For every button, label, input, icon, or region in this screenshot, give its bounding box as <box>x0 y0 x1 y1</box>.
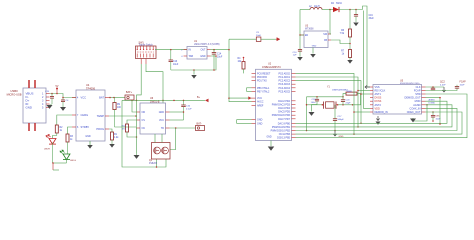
svg-text:560R: 560R <box>347 91 353 93</box>
svg-text:560pF: 560pF <box>338 119 345 121</box>
svg-text:CHRG: CHRG <box>81 113 89 117</box>
svg-text:GND: GND <box>85 135 91 138</box>
svg-text:AGND: AGND <box>413 104 420 107</box>
svg-text:OC: OC <box>142 127 146 130</box>
svg-text:PD0 RX0: PD0 RX0 <box>257 76 268 79</box>
svg-text:VCC: VCC <box>257 97 262 100</box>
svg-text:PWM DAC3 PD3: PWM DAC3 PD3 <box>272 103 291 106</box>
svg-text:DAC4 PD4: DAC4 PD4 <box>278 107 290 110</box>
svg-text:0.1uF: 0.1uF <box>186 109 192 111</box>
svg-text:GND: GND <box>312 45 317 47</box>
svg-text:OD: OD <box>142 111 146 114</box>
svg-text:DCK13 PB5: DCK13 PB5 <box>277 137 291 140</box>
svg-text:PC4 ADC4: PC4 ADC4 <box>278 87 290 90</box>
svg-text:10uF: 10uF <box>217 57 223 59</box>
svg-text:LEDR: LEDR <box>44 149 50 151</box>
svg-text:AVCC: AVCC <box>257 101 264 104</box>
svg-text:BAT: BAT <box>99 96 104 100</box>
svg-text:DVSS: DVSS <box>375 97 382 100</box>
svg-text:C19: C19 <box>369 15 374 17</box>
svg-text:GND: GND <box>266 137 271 139</box>
svg-text:EM4095HMSO16B+: EM4095HMSO16B+ <box>400 83 421 85</box>
svg-text:C14: C14 <box>217 54 222 56</box>
svg-text:10nF: 10nF <box>460 84 466 86</box>
svg-text:VCC: VCC <box>81 96 87 100</box>
svg-text:DAC7 PD7: DAC7 PD7 <box>278 118 290 121</box>
svg-text:CS: CS <box>142 119 146 122</box>
svg-text:DEMOD_OUT: DEMOD_OUT <box>405 97 421 100</box>
svg-text:PC1 ADC1: PC1 ADC1 <box>278 76 290 79</box>
svg-text:1uF: 1uF <box>293 55 297 57</box>
svg-text:ATMEGA328P-PU: ATMEGA328P-PU <box>262 66 281 69</box>
svg-text:5V: 5V <box>56 85 59 88</box>
svg-text:OC11 PB3: OC11 PB3 <box>279 133 291 136</box>
svg-text:PC6 RESET: PC6 RESET <box>257 72 271 75</box>
svg-text:DGND: DGND <box>429 102 436 104</box>
svg-text:GND: GND <box>200 55 206 58</box>
svg-text:4.4nF: 4.4nF <box>440 84 446 86</box>
svg-text:PWM DAC6 PD6: PWM DAC6 PD6 <box>272 114 291 117</box>
svg-text:EN: EN <box>305 35 309 37</box>
svg-text:PB6 XTAL1: PB6 XTAL1 <box>257 87 270 90</box>
svg-text:TP4056: TP4056 <box>86 86 96 90</box>
svg-text:DVSS: DVSS <box>375 100 382 103</box>
svg-text:PROG: PROG <box>96 127 104 131</box>
svg-text:AREF: AREF <box>257 104 264 107</box>
svg-text:PB7 XTAL2: PB7 XTAL2 <box>257 90 270 93</box>
svg-text:10uF: 10uF <box>256 35 262 37</box>
svg-text:10nF: 10nF <box>436 118 442 120</box>
svg-text:GND: GND <box>257 122 263 125</box>
svg-text:DAC 8 PB0: DAC 8 PB0 <box>278 122 291 125</box>
svg-text:PC5 ADC5: PC5 ADC5 <box>278 90 290 93</box>
svg-text:LM1117MPX-3.3 (NOPB): LM1117MPX-3.3 (NOPB) <box>194 44 220 46</box>
svg-text:SHD: SHD <box>415 93 420 96</box>
svg-text:100n: 100n <box>311 102 317 104</box>
svg-text:PD1 TX0: PD1 TX0 <box>257 80 267 83</box>
svg-text:BAT+: BAT+ <box>126 91 133 94</box>
svg-text:FCAP: FCAP <box>460 81 467 84</box>
svg-text:FS8205: FS8205 <box>149 163 158 165</box>
svg-text:IN: IN <box>189 49 192 52</box>
svg-text:LEDG: LEDG <box>70 160 76 162</box>
svg-text:PC3 ADC3: PC3 ADC3 <box>278 83 290 86</box>
svg-text:VCC: VCC <box>159 119 164 122</box>
svg-text:BAT-: BAT- <box>197 123 202 126</box>
svg-text:DEMOD_IN: DEMOD_IN <box>375 111 388 114</box>
svg-text:10uH: 10uH <box>314 6 320 8</box>
svg-text:PC2 ADC2: PC2 ADC2 <box>278 80 290 83</box>
svg-text:PWM DCK10 PB2: PWM DCK10 PB2 <box>271 130 291 133</box>
svg-text:USB0: USB0 <box>10 89 18 93</box>
svg-text:22pF: 22pF <box>346 102 352 104</box>
svg-text:GND: GND <box>26 106 32 110</box>
svg-text:COAX_IN: COAX_IN <box>410 107 421 110</box>
svg-text:ANT2: ANT2 <box>375 104 382 107</box>
svg-text:10uF: 10uF <box>173 64 179 66</box>
svg-text:SS34: SS34 <box>336 3 342 5</box>
svg-text:ANT1: ANT1 <box>375 93 382 96</box>
svg-text:VDD: VDD <box>375 107 380 110</box>
svg-text:MT3608: MT3608 <box>305 28 314 30</box>
svg-text:FB: FB <box>324 40 327 42</box>
svg-text:33uF: 33uF <box>369 18 375 20</box>
svg-text:TAB: TAB <box>189 55 194 58</box>
svg-text:TD: TD <box>161 127 164 130</box>
svg-text:DAC5 PD5: DAC5 PD5 <box>278 111 290 114</box>
svg-text:GND: GND <box>159 111 165 114</box>
svg-text:MICRO-USB: MICRO-USB <box>7 93 22 97</box>
svg-text:PWM DAC9 PB1: PWM DAC9 PB1 <box>272 126 291 129</box>
svg-text:GND: GND <box>257 119 263 122</box>
svg-text:PC0 ADC0: PC0 ADC0 <box>278 72 290 75</box>
svg-text:STDBY: STDBY <box>81 125 90 129</box>
svg-text:DAC2 PD2: DAC2 PD2 <box>278 100 290 103</box>
svg-text:MOD: MOD <box>415 100 421 103</box>
svg-text:TEMP: TEMP <box>97 114 104 118</box>
svg-text:CDEC_OUT: CDEC_OUT <box>407 111 421 114</box>
svg-text:C13: C13 <box>173 61 178 63</box>
svg-text:OUT: OUT <box>200 49 206 52</box>
